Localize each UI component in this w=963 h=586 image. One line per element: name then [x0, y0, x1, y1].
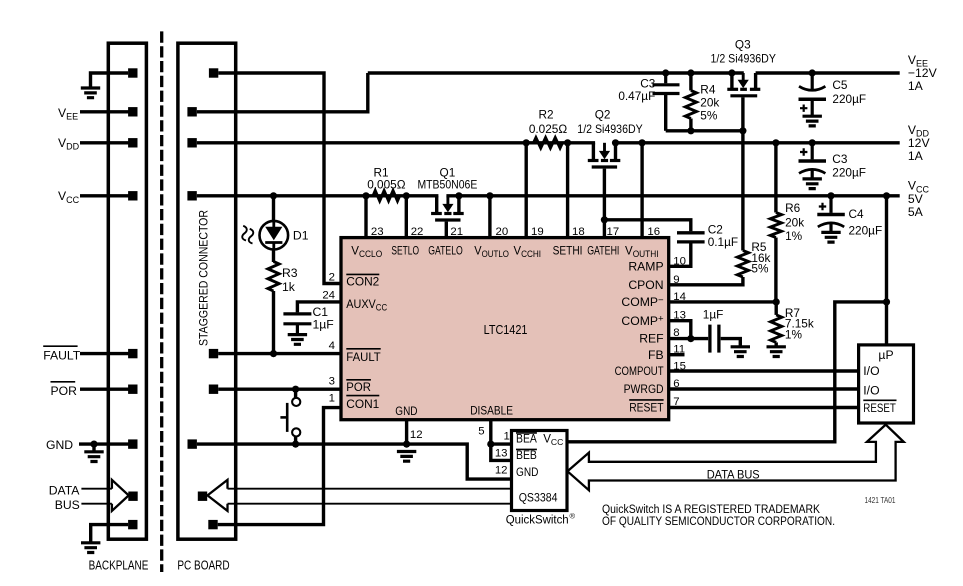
- wire D1 to R3: [272, 250, 275, 263]
- wire 1uF to ground: [721, 339, 741, 347]
- svg-text:18: 18: [572, 226, 585, 238]
- QS3384 box: [512, 431, 568, 511]
- svg-text:0.1µF: 0.1µF: [708, 235, 738, 249]
- backplane pin row1: [128, 68, 137, 77]
- svg-text:COMPOUT: COMPOUT: [615, 364, 664, 378]
- wire BUS line: [81, 503, 112, 505]
- svg-text:22: 22: [411, 226, 424, 238]
- ground C1: [288, 335, 307, 345]
- resistor R1: [373, 191, 400, 201]
- wire R6 top stub: [774, 143, 777, 213]
- svg-text:µP: µP: [878, 348, 893, 362]
- wire FB stub: [669, 353, 685, 356]
- ground backplane bottom: [81, 543, 100, 553]
- node C3a top: [662, 69, 669, 76]
- wire FAULT to IC: [218, 352, 341, 355]
- svg-text:CPON: CPON: [628, 278, 663, 292]
- backplane pin VCC: [128, 191, 137, 200]
- node R4 top: [687, 69, 694, 76]
- svg-text:17: 17: [607, 226, 620, 238]
- wire C3 R4 bottom bus: [666, 129, 743, 132]
- svg-text:1A: 1A: [908, 79, 924, 93]
- wire DATA line: [81, 488, 112, 490]
- svg-text:FAULT: FAULT: [43, 348, 81, 362]
- svg-text:16: 16: [647, 226, 660, 238]
- svg-text:2: 2: [329, 271, 335, 283]
- svg-text:1A: 1A: [908, 149, 924, 163]
- ground C3 220uF: [803, 179, 822, 189]
- pc pin DATA BUS: [198, 492, 207, 501]
- svg-text:5%: 5%: [751, 262, 769, 276]
- wire pin21 gate stub: [445, 222, 448, 238]
- wire R6 to COMP- node: [774, 238, 777, 302]
- wire COMPOUT to uP: [669, 369, 859, 372]
- node button GND: [292, 441, 299, 448]
- svg-text:DATA: DATA: [49, 483, 81, 497]
- svg-text:REF: REF: [639, 332, 663, 346]
- LED D1: [260, 221, 289, 250]
- pc pin VDD: [187, 138, 196, 147]
- wire REF lead: [669, 337, 709, 340]
- wire pin12 stub: [405, 420, 408, 444]
- wire BEB route: [491, 444, 512, 460]
- svg-text:GND: GND: [395, 404, 417, 418]
- node GND backplane: [90, 441, 97, 448]
- data bus arrow QS to uP: [568, 425, 904, 491]
- svg-text:13: 13: [495, 447, 508, 459]
- svg-text:5%: 5%: [700, 109, 718, 123]
- wire COMP- lead: [669, 300, 777, 303]
- wire backplane row1 to ground: [91, 73, 129, 87]
- wire R7 bottom stub: [775, 342, 778, 346]
- svg-text:GND: GND: [516, 466, 538, 479]
- plus sign C4: [819, 203, 826, 210]
- svg-text:FAULT: FAULT: [346, 350, 381, 364]
- svg-text:1%: 1%: [785, 327, 803, 341]
- wire backplane bottom to ground: [91, 525, 128, 542]
- svg-text:RESET: RESET: [863, 401, 896, 415]
- ground backplane top: [81, 88, 100, 98]
- svg-text:20k: 20k: [785, 215, 804, 229]
- svg-text:CON1: CON1: [346, 397, 379, 411]
- svg-text:PWRGD: PWRGD: [624, 382, 664, 396]
- plus sign C3b: [800, 148, 807, 155]
- svg-text:COMP−: COMP−: [621, 295, 664, 309]
- svg-text:0.47µF: 0.47µF: [618, 89, 655, 103]
- svg-text:220µF: 220µF: [832, 166, 866, 180]
- node Q3 drain: [728, 69, 735, 76]
- svg-text:1/2 Si4936DY: 1/2 Si4936DY: [577, 122, 643, 136]
- svg-text:I/O: I/O: [863, 364, 879, 378]
- pc pin bottom CON1: [208, 520, 217, 529]
- pc pin FAULT: [209, 349, 218, 358]
- svg-text:Q3: Q3: [735, 38, 751, 52]
- wire R7 top stub: [775, 302, 778, 315]
- svg-text:1/2 Si4936DY: 1/2 Si4936DY: [711, 52, 777, 66]
- wire data bus thin top: [228, 488, 512, 490]
- node R4 bottom: [687, 127, 694, 134]
- svg-text:1µF: 1µF: [313, 318, 334, 332]
- wire COMP+ lead: [669, 321, 691, 339]
- node Q3 gate node: [739, 127, 746, 134]
- svg-text:BEA: BEA: [516, 432, 537, 445]
- wire VCC label to pin: [80, 194, 129, 197]
- node R3 FAULT: [270, 350, 277, 357]
- node R2 right: [564, 139, 571, 146]
- wire POR label to pin: [80, 388, 129, 391]
- svg-text:24: 24: [322, 289, 335, 301]
- wire C2 top branch: [604, 220, 690, 231]
- svg-text:5V: 5V: [908, 192, 924, 206]
- data bus arrow into pc pin: [208, 480, 228, 511]
- node uP feed branch: [883, 298, 890, 305]
- node R1 left: [362, 192, 369, 199]
- backplane pin POR: [128, 385, 137, 394]
- svg-text:20: 20: [496, 226, 509, 238]
- ground pin12: [397, 452, 416, 462]
- node VCC uP feed: [883, 192, 890, 199]
- svg-text:DISABLE: DISABLE: [470, 403, 513, 417]
- wire D1 anode: [272, 196, 275, 221]
- svg-text:1k: 1k: [282, 280, 296, 294]
- svg-text:12: 12: [410, 429, 423, 441]
- wire FAULT label to pin: [80, 352, 129, 355]
- svg-text:D1: D1: [293, 228, 309, 242]
- node pin17 C2 branch: [601, 216, 608, 223]
- node pin16 vdd: [639, 139, 646, 146]
- svg-text:20k: 20k: [700, 96, 719, 110]
- wire pin16 stub: [640, 143, 643, 238]
- svg-text:C3: C3: [832, 152, 848, 166]
- resistor R5: [737, 251, 748, 278]
- pc pin row1: [209, 68, 218, 77]
- node COMP- R6 R7: [773, 298, 780, 305]
- svg-text:1421 TA01: 1421 TA01: [865, 495, 896, 505]
- resistor R2: [534, 138, 563, 148]
- node R6 top: [772, 139, 779, 146]
- capacitor C3 220uF: [811, 143, 814, 160]
- capacitor C5 220uF: [811, 73, 814, 91]
- wire pin18 stub: [566, 143, 569, 238]
- plus sign C5: [800, 105, 807, 112]
- wire R4 top stub: [689, 73, 692, 91]
- svg-text:R3: R3: [282, 266, 298, 280]
- ground C5: [803, 116, 822, 126]
- backplane pin DATA BUS: [128, 492, 137, 501]
- ground C4: [821, 232, 840, 242]
- svg-text:BEB: BEB: [516, 449, 537, 462]
- svg-text:0.005Ω: 0.005Ω: [367, 177, 406, 191]
- pushbutton: [292, 398, 300, 406]
- svg-text:FB: FB: [648, 348, 664, 362]
- svg-text:3: 3: [329, 375, 335, 387]
- wire pin17 gate stub: [603, 169, 606, 238]
- svg-text:1%: 1%: [785, 229, 803, 243]
- svg-text:1: 1: [329, 392, 335, 404]
- wire uP VCC column: [885, 196, 888, 345]
- transistor Q1: [435, 196, 438, 212]
- wire R3 to FAULT: [272, 291, 275, 354]
- wire VDD rail left: [197, 141, 595, 144]
- svg-text:STAGGERED CONNECTOR: STAGGERED CONNECTOR: [197, 210, 210, 346]
- resistor R7: [771, 315, 782, 342]
- node Q2 source: [612, 139, 619, 146]
- wire pin22 stub: [405, 196, 408, 238]
- wire gnd stub backplane: [92, 444, 95, 452]
- wire pin5 stub: [489, 420, 492, 444]
- wire row1 to CON2 corner: [218, 73, 341, 284]
- node POR button: [292, 386, 299, 393]
- wire button top stub: [294, 389, 297, 398]
- wire pin23 stub: [364, 196, 367, 238]
- backplane pin FAULT: [128, 349, 137, 358]
- transistor Q2: [592, 143, 595, 159]
- wire C2 bottom to RAMP: [669, 242, 691, 266]
- svg-text:BACKPLANE: BACKPLANE: [89, 559, 149, 573]
- node REF COMP+: [687, 335, 694, 342]
- resistor R3: [268, 262, 279, 292]
- svg-text:POR: POR: [346, 380, 371, 394]
- svg-text:R4: R4: [700, 83, 716, 97]
- svg-text:GATELO: GATELO: [428, 244, 463, 258]
- node pin20 vcc: [486, 192, 493, 199]
- svg-text:1: 1: [503, 431, 509, 443]
- wire PWRGD to uP: [669, 387, 859, 390]
- svg-text:OF QUALITY SEMICONDUCTOR CORPO: OF QUALITY SEMICONDUCTOR CORPORATION.: [602, 514, 835, 528]
- wire AUXVCC lead: [297, 302, 341, 313]
- svg-text:RESET: RESET: [629, 401, 664, 415]
- capacitor C1: [283, 312, 311, 315]
- uP box: [859, 345, 914, 423]
- board separator dashed line: [160, 31, 163, 572]
- svg-text:QuickSwitch: QuickSwitch: [506, 513, 569, 527]
- wire BEA lead: [491, 442, 512, 445]
- svg-text:QS3384: QS3384: [519, 492, 558, 505]
- node C5 top: [809, 69, 816, 76]
- svg-text:1µF: 1µF: [703, 307, 724, 321]
- wire VDD rail right: [616, 141, 900, 144]
- LED light squiggles: [249, 229, 254, 244]
- svg-text:PC BOARD: PC BOARD: [177, 559, 229, 573]
- svg-text:220µF: 220µF: [832, 92, 866, 106]
- svg-text:R2: R2: [538, 108, 553, 122]
- svg-text:−12V: −12V: [908, 66, 938, 80]
- svg-text:220µF: 220µF: [849, 224, 883, 238]
- svg-text:5A: 5A: [908, 205, 924, 219]
- svg-text:19: 19: [531, 226, 544, 238]
- node R1 right: [403, 192, 410, 199]
- wire CON1 route: [218, 408, 341, 525]
- wire GND bus: [197, 444, 512, 479]
- capacitor C4 220uF: [829, 196, 832, 213]
- wire CPON to R5: [669, 277, 743, 285]
- svg-text:12: 12: [495, 465, 508, 477]
- capacitor 1uF REF: [708, 325, 711, 353]
- wire branch to QS3384 VCC: [567, 302, 887, 442]
- pc pin GND: [188, 439, 197, 448]
- wire data bus thin bottom: [228, 503, 512, 505]
- IC LTC1421 body: [341, 238, 669, 420]
- svg-text:GATEHI: GATEHI: [587, 244, 619, 258]
- backplane pin VEE: [128, 107, 137, 116]
- backplane pin GND: [128, 439, 137, 448]
- svg-text:SETHI: SETHI: [553, 244, 583, 258]
- node VCC to D1: [270, 192, 277, 199]
- resistor R4: [685, 91, 696, 119]
- ground R7: [767, 347, 786, 357]
- svg-text:CON2: CON2: [346, 275, 379, 289]
- data bus arrow into backplane: [112, 480, 129, 511]
- svg-text:MTB50N06E: MTB50N06E: [417, 177, 477, 191]
- pc board connector box: [178, 43, 236, 539]
- node C4 top: [827, 192, 834, 199]
- wire VDD label to pin: [80, 141, 129, 144]
- capacitor C3 0.47uF: [664, 73, 667, 83]
- node Q1 source: [455, 192, 462, 199]
- ground 1uF: [731, 347, 750, 357]
- svg-text:COMP+: COMP+: [621, 314, 664, 328]
- pc pin VEE: [187, 107, 196, 116]
- svg-text:DATA BUS: DATA BUS: [707, 467, 760, 481]
- wire VCC rail left: [197, 194, 439, 197]
- svg-text:RAMP: RAMP: [628, 260, 663, 274]
- svg-text:21: 21: [450, 226, 463, 238]
- svg-text:R6: R6: [785, 201, 801, 215]
- pc pin POR: [209, 385, 218, 394]
- svg-text:4: 4: [329, 340, 335, 352]
- node pin12 GND: [403, 441, 410, 448]
- wire POR to IC: [218, 388, 341, 391]
- ground backplane GND row: [84, 452, 103, 462]
- svg-text:C3: C3: [640, 76, 656, 90]
- svg-text:®: ®: [570, 512, 576, 521]
- pc pin VCC: [187, 191, 196, 200]
- wire pin20 stub: [488, 196, 491, 238]
- wire GND label to pin: [79, 442, 129, 445]
- backplane pin bottom: [128, 520, 137, 529]
- wire button bottom stub: [294, 436, 297, 444]
- wire R4 bottom stub: [689, 119, 692, 131]
- wire VCC rail right: [446, 194, 899, 197]
- transistor Q3: [730, 73, 733, 88]
- wire VEE jog up to rail: [197, 73, 368, 112]
- node C3b top: [809, 139, 816, 146]
- backplane connector box: [108, 43, 146, 539]
- svg-text:Q2: Q2: [595, 108, 611, 122]
- wire pin19 stub: [525, 143, 528, 238]
- node R2 left: [523, 139, 530, 146]
- svg-text:C4: C4: [849, 207, 865, 221]
- wire VEE rail left segment: [368, 71, 744, 74]
- wire RESET to uP: [669, 406, 859, 409]
- wire VEE rail right segment: [756, 71, 900, 74]
- wire VEE label to pin: [80, 110, 129, 113]
- svg-text:LTC1421: LTC1421: [484, 323, 528, 337]
- svg-text:SETLO: SETLO: [391, 244, 419, 258]
- svg-text:5: 5: [478, 425, 484, 437]
- svg-text:12V: 12V: [908, 136, 931, 150]
- svg-text:0.025Ω: 0.025Ω: [529, 122, 568, 136]
- wire Q3 gate lead: [741, 97, 744, 250]
- resistor R6: [770, 213, 781, 238]
- node pin5 junction: [487, 441, 494, 448]
- svg-text:23: 23: [371, 226, 384, 238]
- svg-text:GND: GND: [46, 438, 73, 452]
- capacitor C2: [677, 231, 705, 234]
- backplane pin VDD: [128, 138, 137, 147]
- svg-text:I/O: I/O: [863, 384, 879, 398]
- svg-text:BUS: BUS: [55, 498, 80, 512]
- svg-text:C5: C5: [832, 78, 848, 92]
- svg-text:POR: POR: [51, 384, 78, 398]
